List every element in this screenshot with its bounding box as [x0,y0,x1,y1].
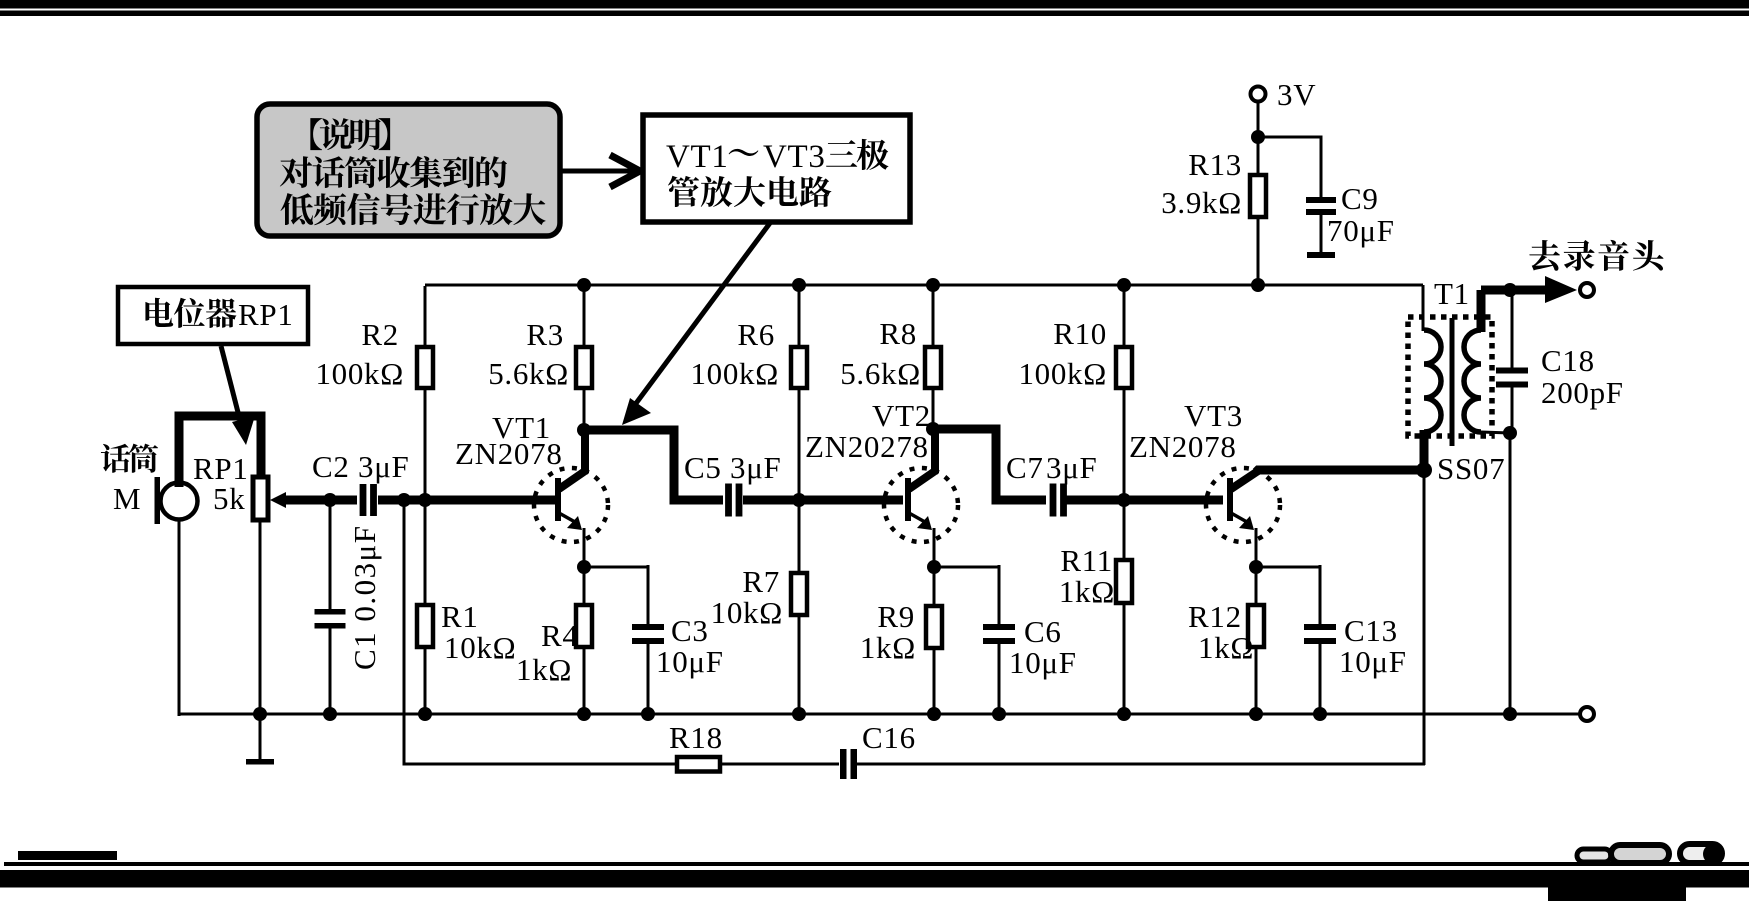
svg-text:R2: R2 [361,317,399,352]
svg-text:VT3: VT3 [763,139,826,175]
svg-text:M: M [113,481,141,516]
note box: 说明 (amplifies low-frequency signal from microphone) [257,104,560,236]
wire: R18 to C16 [720,763,839,766]
capacitor C5 3uF [684,450,782,517]
node: C18 tap on output wire [1503,283,1517,297]
node: VT2 emitter junction [927,560,941,574]
arrow: pot label box to RP1 [221,346,255,445]
capacitor C16 (series, feedback) [840,720,916,779]
svg-text:C7: C7 [1006,450,1044,485]
capacitor C2 3uF [312,449,410,516]
wire: RP1 bottom to ground [259,520,262,760]
resistor R10 100kΩ [1018,286,1132,498]
wire: VT3 collector to T1 primary (thick) [1256,470,1424,472]
wire: ground rail (bottom horizontal) [179,713,1579,716]
node: VT1 emitter junction [577,560,591,574]
svg-text:R4: R4 [541,618,579,653]
svg-text:ZN2078: ZN2078 [455,436,563,471]
arrow: VT box pointing to VT1 collector wire [622,223,770,425]
transistor VT1 ZN2078 [455,410,608,542]
transistor VT3 ZN2078 [1129,398,1280,542]
resistor R18 (feedback, horizontal) [669,720,723,772]
wire: VT2 emitter node to C6 [934,566,999,569]
svg-text:10μF: 10μF [1339,644,1407,679]
node: R6 top on supply rail [792,278,806,292]
node: feedback tap on VT1 base wire [397,493,411,507]
svg-text:R8: R8 [879,316,917,351]
wire: VT1 emitter node to C3 [584,566,648,569]
resistor R3 5.6kΩ [488,286,592,428]
svg-text:R13: R13 [1188,147,1242,182]
resistor R9 1kΩ [860,569,942,716]
note box: VT1~VT3 transistor amplifier stage label [643,115,910,222]
wire: 3V node to C9 [1258,137,1321,199]
potentiometer RP1 5k [193,451,286,520]
wire: microphone bottom to ground rail [178,519,181,716]
wire: C5 to VT2 base [743,496,903,505]
node: R9 bottom on ground rail [927,707,941,721]
terminal: ground rail right end [1580,707,1594,721]
resistor R13 3.9kΩ [1161,139,1266,287]
svg-text:1kΩ: 1kΩ [516,652,572,687]
svg-text:R9: R9 [877,599,915,634]
svg-text:5.6kΩ: 5.6kΩ [840,356,921,391]
wire: supply rail (top horizontal) [425,284,1423,287]
node: C6 bottom on ground rail [992,707,1006,721]
resistor R6 100kΩ [690,286,807,498]
node: R12 bottom on ground rail [1249,707,1263,721]
svg-text:C6: C6 [1024,614,1062,649]
wire: T1 secondary bottom to C18 bottom [1481,432,1510,433]
wire: VT2 emitter to R9/C6 node [933,528,936,567]
note box: 电位器RP1 (potentiometer RP1) label [118,287,308,344]
transformer T1 SS07 [1408,276,1505,486]
svg-text:T1: T1 [1434,276,1470,311]
svg-text:ZN20278: ZN20278 [805,429,929,464]
capacitor C18 200pF [1496,292,1624,433]
wire: 3V terminal to R13 [1257,102,1260,177]
svg-text:10kΩ: 10kΩ [444,630,516,665]
svg-text:5k: 5k [213,481,245,516]
capacitor C6 10uF [983,565,1077,716]
resistor R8 5.6kΩ [840,286,941,427]
wire: VT2 collector to C7 (thick) [933,429,1046,500]
svg-text:70μF: 70μF [1327,213,1395,248]
svg-text:R3: R3 [526,317,564,352]
node: C18 line bottom on ground rail [1503,707,1517,721]
svg-text:R12: R12 [1188,599,1242,634]
node: R3 top on supply rail [577,278,591,292]
svg-text:100kΩ: 100kΩ [690,356,779,391]
svg-text:R1: R1 [441,599,479,634]
svg-text:R11: R11 [1060,543,1113,578]
svg-text:R7: R7 [742,564,780,599]
svg-text:R18: R18 [669,720,723,755]
svg-text:100kΩ: 100kΩ [315,356,404,391]
resistor R4 1kΩ [516,569,592,716]
svg-text:10μF: 10μF [1009,645,1077,680]
svg-text:C1 0.03μF: C1 0.03μF [347,524,382,670]
svg-text:VT3: VT3 [1184,398,1243,433]
node: C1 tap on input wire [323,493,337,507]
capacitor C9 70μF [1306,181,1395,258]
svg-text:VT1: VT1 [666,139,729,175]
transistor VT2 ZN20278 [805,398,958,542]
svg-text:C18: C18 [1541,343,1595,378]
wire: C18 bottom node to ground rail [1509,433,1512,716]
svg-text:C3: C3 [671,613,709,648]
node: VT2 collector / R8 junction [926,422,940,436]
svg-text:5.6kΩ: 5.6kΩ [488,356,569,391]
svg-text:1kΩ: 1kΩ [1059,574,1115,609]
wire: VT3 emitter to R12/C13 node [1255,528,1258,567]
node: R11 bottom on ground rail [1117,707,1131,721]
wire: C16 to SS07 node riser [855,763,1425,766]
svg-text:100kΩ: 100kΩ [1018,356,1107,391]
node: R4 bottom on ground rail [577,707,591,721]
resistor R1 10kΩ [417,502,516,716]
node: R2/R1 junction on VT1 base wire [418,493,432,507]
node: R6/R7 junction on VT2 base wire [792,493,806,507]
wire: VT1 emitter to R4/C3 node [583,528,586,567]
capacitor C3 10uF [632,565,724,716]
svg-text:200pF: 200pF [1541,375,1624,410]
node: RP1 bottom on ground rail [253,707,267,721]
node: C3 bottom on ground rail [641,707,655,721]
node: R10/R11 junction on VT3 base wire [1117,493,1131,507]
svg-text:C16: C16 [862,720,916,755]
node: VT1 collector / R3 junction [577,423,591,437]
output terminal 去录音头 (to recording head) [1529,240,1663,297]
svg-text:1kΩ: 1kΩ [860,630,916,665]
node: R8 top on supply rail [926,278,940,292]
wire: T1 secondary top to output terminal (thick with arrow) [1481,276,1577,303]
svg-text:C13: C13 [1344,613,1398,648]
wire: VT1 collector to C5 (thick) [584,430,723,500]
node: R7 bottom on ground rail [792,707,806,721]
ground symbol [246,759,274,765]
svg-text:C5 3μF: C5 3μF [684,450,782,485]
svg-text:3.9kΩ: 3.9kΩ [1161,185,1242,220]
svg-text:RP1: RP1 [238,297,294,332]
capacitor C1 0.03uF [315,502,383,716]
wire: microphone top to RP1 top (thick loop) [179,416,261,487]
svg-text:1kΩ: 1kΩ [1198,630,1254,665]
wire: RP1 wiper to C2 [283,496,357,505]
wire: C7 to VT3 base [1066,496,1223,505]
node: R10 top on supply rail [1117,278,1131,292]
svg-text:ZN2078: ZN2078 [1129,429,1237,464]
power terminal 3V [1251,77,1317,112]
node: R13 bottom on supply rail [1251,278,1265,292]
svg-text:SS07: SS07 [1437,451,1505,486]
svg-text:C9: C9 [1341,181,1379,216]
node: C13 bottom on ground rail [1313,707,1327,721]
arrow: note box to VT1~VT3 label box [562,155,640,187]
svg-text:3V: 3V [1277,77,1316,112]
node: C18 bottom / T1 secondary bottom junction [1503,426,1517,440]
svg-text:VT2: VT2 [872,398,931,433]
resistor R12 1kΩ [1188,569,1264,716]
wire: SS07 node down to feedback line [1423,470,1426,765]
microphone M (话筒) [101,444,198,524]
svg-text:3μF: 3μF [1046,450,1097,485]
svg-text:10kΩ: 10kΩ [711,595,783,630]
wire: C2 to VT1 base [378,496,556,505]
svg-text:R6: R6 [737,317,775,352]
wire: VT3 emitter node to C13 [1256,566,1320,569]
capacitor C7 3uF [1006,450,1097,517]
node: T1 primary bottom / VT3 collector (SS07 node) [1416,462,1432,478]
resistor R7 10kΩ [711,502,807,716]
resistor R11 1kΩ [1059,502,1132,716]
svg-text:10μF: 10μF [656,644,724,679]
node: 3V / C9 branch junction [1251,130,1265,144]
capacitor C13 10uF [1304,565,1407,716]
resistor R2 100kΩ [315,286,433,498]
node: VT3 emitter junction [1249,560,1263,574]
wire: feedback from VT1 base node down and right [404,500,672,764]
svg-text:R10: R10 [1053,316,1107,351]
svg-text:C2 3μF: C2 3μF [312,449,410,484]
node: C1 bottom on ground rail [323,707,337,721]
node: R1 bottom on ground rail [418,707,432,721]
